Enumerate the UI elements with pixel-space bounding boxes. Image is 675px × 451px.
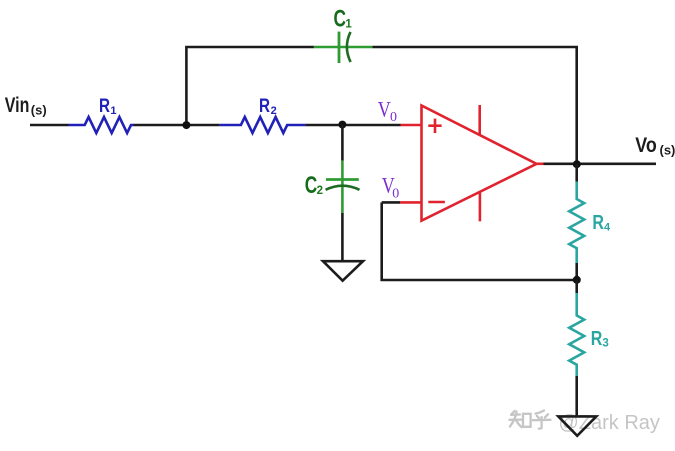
svg-text:0: 0 (392, 187, 399, 202)
label Vin(s) (5, 93, 47, 118)
label V0 minus input (382, 174, 400, 202)
svg-text:Vo: Vo (635, 133, 657, 157)
wire node B down to C2 (341, 125, 344, 161)
node B junction dot (338, 121, 346, 129)
svg-text:4: 4 (604, 222, 611, 234)
wire output (544, 163, 657, 166)
label C1 (334, 6, 353, 32)
svg-text:1: 1 (110, 105, 116, 117)
svg-text:0: 0 (390, 110, 397, 125)
svg-text:2: 2 (271, 105, 277, 117)
svg-text:R: R (259, 94, 270, 116)
capacitor C1 (339, 32, 351, 63)
node output dot (573, 160, 581, 168)
wire input left (30, 124, 69, 127)
svg-text:Vin: Vin (5, 93, 30, 117)
wire node C down (575, 280, 578, 293)
ground under C2 (323, 261, 363, 281)
wire C2 top lead (341, 161, 344, 213)
ground bottom right (558, 416, 596, 435)
svg-text:R: R (99, 95, 110, 117)
svg-text:2: 2 (317, 185, 323, 197)
label R4 (592, 211, 611, 233)
op-amp U1 (422, 105, 544, 221)
svg-text:C: C (305, 172, 317, 198)
watermark zhihu character zhi (510, 411, 531, 427)
wire output node down (575, 164, 578, 181)
label Vo(s) (635, 133, 675, 157)
wire plus input pin (401, 124, 422, 127)
svg-text:R: R (591, 327, 603, 349)
wire feedback top right (372, 47, 576, 164)
label C2 (305, 172, 323, 198)
wire R2 to node B (305, 124, 400, 127)
svg-text:3: 3 (602, 338, 608, 350)
svg-text:C: C (334, 6, 346, 32)
wire feedback left vertical (186, 47, 314, 125)
wire minus input pin red (400, 201, 422, 204)
capacitor C2 (326, 180, 360, 190)
resistor R4 (569, 182, 584, 264)
resistor R3 (569, 293, 584, 376)
wire minus input pin black (382, 201, 400, 204)
wire R1 to node A (134, 124, 220, 127)
wire C1 left lead (314, 46, 373, 49)
label R1 (99, 95, 117, 117)
node A junction dot (182, 121, 190, 129)
wire feedback bottom loop (382, 202, 577, 280)
watermark zhihu character hu (533, 411, 551, 429)
svg-text:R: R (592, 211, 604, 233)
svg-text:(s): (s) (31, 103, 47, 118)
label R3 (591, 327, 609, 349)
wire R3 to ground (575, 376, 578, 416)
wire C2 bottom to ground (341, 213, 344, 261)
node C junction dot (573, 276, 581, 284)
resistor R1 (69, 117, 134, 133)
resistor R2 (219, 117, 305, 133)
wire R4 to node C (575, 263, 578, 280)
label V0 plus input (378, 98, 397, 125)
label R2 (259, 94, 277, 116)
svg-text:(s): (s) (660, 143, 675, 158)
svg-text:1: 1 (345, 19, 352, 31)
